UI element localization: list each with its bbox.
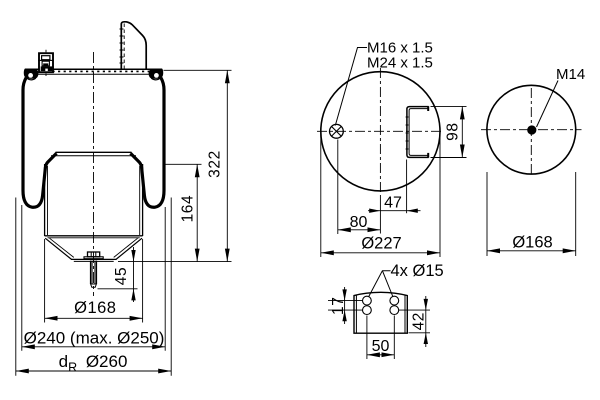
svg-text:4x Ø15: 4x Ø15 [391,262,444,280]
svg-text:Ø227: Ø227 [361,234,401,252]
crosshair centerlines [317,130,444,132]
dimension 322 [118,70,232,261]
dimension 50 [367,316,394,360]
dimension 17 [328,287,363,324]
bellows left lobe roll [24,69,39,80]
dimension 47 [368,160,421,234]
svg-text:42: 42 [410,312,427,330]
svg-text:Ø168: Ø168 [512,233,552,251]
dimension 42 [399,296,430,347]
circle d168 [487,85,576,174]
4 holes [363,296,399,314]
dimension diameter 168 (piston) [45,239,143,323]
dimension 80 [338,140,381,235]
svg-text:47: 47 [384,195,402,212]
air fitting [38,50,54,76]
bellows left outer wall [23,78,57,208]
dimension diameter 168 [487,172,576,256]
piston support cone (funnel) [45,238,142,261]
top plate [25,69,162,74]
svg-text:322: 322 [206,150,223,178]
plate outline [354,292,407,333]
svg-text:Ø240 (max. Ø250): Ø240 (max. Ø250) [24,329,165,348]
svg-text:98: 98 [445,122,462,140]
leader M14 [537,81,559,128]
centerline [93,52,95,296]
dimension dR 260 [16,198,171,376]
leader M16/M24 [335,48,367,126]
svg-text:Ø168: Ø168 [74,299,116,317]
dimension 164 [163,164,202,261]
bellows right lobe roll [149,69,164,80]
bellows right outer wall [131,78,165,208]
svg-text:50: 50 [372,338,390,355]
mounting nut and washer [84,252,103,259]
piston [45,152,143,238]
center stud dot [527,125,536,134]
dimension diameter 240 max 250 [22,205,165,351]
crosshairs [481,129,582,131]
svg-text:M14: M14 [556,66,585,83]
svg-text:80: 80 [350,214,368,231]
svg-text:45: 45 [113,267,130,285]
dimension diameter 227 [321,133,440,257]
dimension 98 [431,106,467,157]
main circle d227 [321,72,440,191]
channel bracket (top view) [406,106,429,158]
svg-text:164: 164 [180,195,197,223]
threaded stud [91,261,97,288]
leader 4x d15 [369,271,391,297]
svg-text:M24 x 1.5: M24 x 1.5 [367,55,433,72]
bracket (side view) [120,22,147,69]
svg-text:17: 17 [330,297,347,315]
dimension 45 [98,247,138,302]
air fitting hole with X [330,124,344,138]
